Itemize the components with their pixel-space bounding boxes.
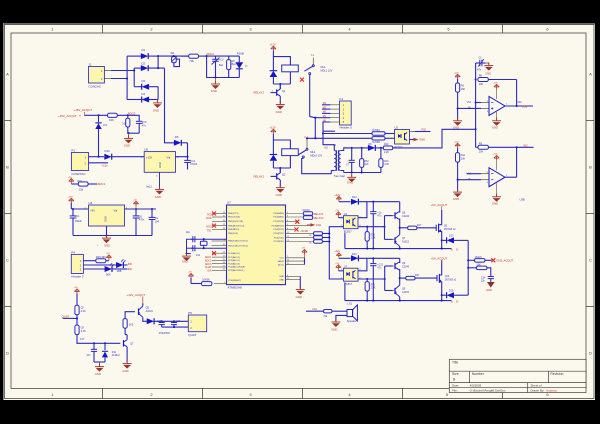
svg-text:U2: U2 — [395, 126, 399, 130]
resistor snubber output — [468, 263, 491, 276]
svg-text:+5V1B: +5V1B — [300, 230, 308, 233]
resistor R collector 1K5 — [123, 319, 134, 335]
ground bridge — [153, 100, 162, 113]
svg-text:GND: GND — [279, 279, 284, 281]
svg-text:Tran CapI: Tran CapI — [334, 174, 346, 178]
no-connect output — [491, 258, 495, 262]
svg-text:15k: 15k — [79, 187, 84, 191]
resistor 10K input — [108, 113, 118, 122]
connector P5 — [188, 311, 206, 337]
svg-text:PD7(RXD): PD7(RXD) — [274, 241, 285, 243]
labels left pins — [205, 214, 212, 273]
wire divider mid — [76, 315, 78, 325]
optocoupler U2 — [395, 126, 410, 149]
power +5V opto B — [335, 263, 343, 271]
wire feedback down — [516, 80, 518, 107]
svg-text:D6: D6 — [175, 135, 179, 139]
svg-text:GND: GND — [347, 181, 353, 185]
wire opamp B inputs — [458, 174, 481, 180]
svg-text:+C1: +C1 — [75, 215, 80, 218]
resistor PB1 out — [303, 212, 312, 216]
power +5V reset — [188, 272, 202, 284]
resistor PB2 out — [303, 216, 312, 220]
svg-text:47u: 47u — [377, 215, 382, 218]
ground crystal — [182, 252, 191, 263]
ground snubber — [211, 76, 220, 93]
svg-text:C17: C17 — [80, 338, 85, 341]
port D- B — [451, 300, 459, 304]
transistor QA1 C2240 — [395, 202, 410, 228]
diode D1 — [127, 48, 158, 59]
node bridge pin joins — [126, 77, 128, 79]
svg-text:GND: GND — [331, 328, 337, 332]
svg-text:+12V: +12V — [454, 141, 460, 143]
capacitor C10 — [191, 236, 195, 242]
wire +12 row — [307, 137, 377, 139]
wire U5 output node — [175, 143, 188, 157]
svg-text:C2240: C2240 — [402, 215, 410, 218]
capacitor C6 — [133, 209, 145, 236]
ground speaker — [331, 315, 347, 331]
svg-text:PD5(INT1): PD5(INT1) — [274, 233, 285, 235]
resistor R8 feedback — [478, 75, 517, 86]
svg-text:R27: R27 — [415, 274, 420, 277]
connector P1 — [71, 149, 88, 176]
svg-text:+C2: +C2 — [219, 58, 224, 61]
svg-text:AREF: AREF — [278, 260, 284, 263]
svg-text:10K: 10K — [477, 263, 482, 266]
relay ML2 contact — [299, 138, 323, 158]
wire opto U2 output stub — [410, 128, 431, 131]
title block — [449, 359, 586, 392]
resistor R9 feedback B — [476, 129, 517, 153]
svg-text:104: 104 — [155, 220, 160, 223]
svg-text:10K: 10K — [479, 83, 484, 86]
ground U5 — [146, 172, 164, 199]
svg-text:ADC1: ADC1 — [98, 182, 106, 186]
speaker LS1 — [347, 301, 358, 323]
svg-text:D13: D13 — [449, 235, 454, 238]
wire MCU vcc pins — [300, 258, 304, 289]
transistor QB1 C2240 — [395, 258, 410, 278]
connector P4 — [71, 251, 84, 279]
svg-text:Drawn By:: Drawn By: — [531, 388, 545, 392]
K1 pin wires — [315, 105, 334, 151]
svg-text:+12V: +12V — [454, 72, 460, 74]
wire feedback rail U3A — [475, 63, 477, 129]
svg-text:D3: D3 — [142, 79, 146, 83]
svg-text:PC2(ADC2): PC2(ADC2) — [228, 259, 240, 262]
svg-text:+5V: +5V — [335, 263, 339, 265]
wire secondary row — [344, 147, 369, 149]
svg-text:GND: GND — [155, 195, 161, 199]
svg-text:A: A — [6, 72, 9, 77]
svg-text:IN6: IN6 — [128, 262, 133, 266]
wire relay1 bottom — [273, 83, 290, 85]
wire bridge left rail — [126, 56, 128, 99]
svg-text:470uF/50V: 470uF/50V — [159, 333, 171, 335]
wire DC long drop — [165, 68, 175, 143]
svg-text:GND: GND — [122, 369, 128, 373]
wire opto drive routing — [323, 227, 344, 279]
power +12V channel A — [334, 193, 350, 202]
svg-text:File:: File: — [452, 388, 458, 392]
wire Q5 base link — [125, 312, 135, 319]
no-connect relay1 — [300, 78, 304, 82]
power +12V relay1 — [270, 42, 277, 56]
resistor R11a — [456, 83, 466, 120]
svg-text:11p: 11p — [186, 231, 191, 234]
ground output filled — [486, 282, 495, 292]
svg-text:P16B: P16B — [237, 51, 244, 55]
diode LV1 — [95, 115, 108, 156]
wire K1 pin5 row — [323, 130, 335, 132]
svg-text:470nF: 470nF — [190, 163, 198, 166]
svg-text:Number: Number — [472, 372, 485, 376]
resistor reset 10K — [202, 279, 212, 286]
svg-text:V10: V10 — [467, 172, 472, 175]
svg-text:D15: D15 — [449, 289, 454, 292]
port +15V_ACQUT — [58, 108, 92, 118]
wire relay2 bottom — [273, 167, 290, 169]
svg-text:U7: U7 — [227, 201, 231, 205]
svg-text:GND: GND — [124, 144, 130, 148]
diode relay2 — [270, 140, 278, 168]
svg-text:PB5(SCK): PB5(SCK) — [228, 233, 238, 235]
svg-text:GND: GND — [296, 295, 302, 299]
ground R11b — [453, 189, 462, 201]
svg-text:+12V: +12V — [493, 154, 499, 156]
wire rail A — [345, 233, 452, 249]
regulator U4 — [85, 201, 129, 226]
svg-text:PB7(XTAL2/TOSC2): PB7(XTAL2/TOSC2) — [228, 244, 248, 247]
svg-text:GND: GND — [276, 193, 282, 197]
svg-text:R17: R17 — [417, 224, 422, 227]
svg-text:10K: 10K — [364, 164, 369, 166]
svg-text:GND: GND — [276, 110, 282, 114]
svg-text:CON2AC: CON2AC — [89, 85, 102, 89]
trim cap C2 — [212, 56, 225, 77]
svg-text:GND: GND — [95, 372, 101, 376]
svg-text:GND: GND — [153, 108, 159, 112]
svg-text:R13: R13 — [384, 161, 389, 163]
svg-text:W1: W1 — [170, 51, 175, 55]
wire IN2 stub — [517, 146, 534, 148]
svg-text:CON2TAC: CON2TAC — [71, 172, 86, 176]
wire feedback B down — [516, 147, 518, 177]
wire bridge inner rail — [133, 68, 135, 87]
no-connect right pins — [295, 220, 299, 224]
ground Q2 — [276, 185, 285, 198]
svg-text:2N7000 x2: 2N7000 x2 — [444, 228, 456, 231]
svg-text:Ba1: Ba1 — [219, 64, 224, 67]
resistor R27 — [400, 274, 437, 280]
resistor R13 — [379, 148, 390, 173]
resistor pullup A — [365, 227, 376, 249]
wire +15 rail — [84, 114, 128, 116]
svg-text:Via: Via — [167, 155, 171, 159]
svg-text:+12V: +12V — [146, 155, 152, 159]
svg-text:+5V: +5V — [133, 199, 137, 201]
led D6B — [83, 259, 127, 273]
svg-text:INT0: INT0 — [206, 226, 212, 229]
ground ADC3 — [124, 132, 133, 147]
label +5V_ACQUT B — [431, 256, 448, 262]
svg-text:U7: U7 — [344, 265, 348, 269]
connector J1 — [89, 63, 105, 89]
svg-text:Speaker: Speaker — [347, 319, 357, 323]
svg-text:10K: 10K — [122, 122, 127, 125]
svg-text:PC817: PC817 — [344, 282, 352, 286]
resistor R1 70k — [182, 54, 207, 63]
svg-text:+12V: +12V — [334, 193, 340, 197]
svg-text:R706A: R706A — [373, 129, 381, 132]
svg-text:AVCC: AVCC — [278, 263, 284, 266]
svg-text:+12V: +12V — [270, 125, 276, 129]
svg-text:PC1(ADC1): PC1(ADC1) — [228, 256, 240, 259]
resistor R706A — [323, 129, 395, 135]
svg-text:+5V: +5V — [301, 248, 305, 250]
trimpot W1 — [170, 51, 179, 67]
diode D10 — [104, 149, 144, 160]
svg-text:GND: GND — [279, 276, 284, 278]
svg-text:TN1: TN1 — [207, 230, 212, 233]
svg-text:B: B — [589, 165, 592, 170]
svg-text:B: B — [6, 165, 9, 170]
svg-text:GND: GND — [485, 72, 491, 76]
svg-text:GN2_ACQUT: GN2_ACQUT — [496, 259, 513, 263]
svg-text:IOA: IOA — [207, 269, 212, 272]
svg-text:10K: 10K — [461, 157, 466, 160]
capacitor C4 — [184, 157, 198, 170]
svg-text:+12V: +12V — [68, 196, 74, 198]
svg-text:MDL6 12V: MDL6 12V — [310, 154, 322, 157]
svg-text:GND: GND — [419, 138, 425, 142]
svg-text:PD0(AIN0): PD0(AIN0) — [273, 212, 284, 215]
ground MCU — [296, 286, 305, 299]
capacitor C11 — [191, 245, 201, 257]
svg-text:Via: Via — [114, 208, 118, 212]
svg-text:R15 330: R15 330 — [96, 255, 106, 259]
resistor divider bottom 3.3K — [75, 325, 86, 335]
wire J1 pin1 to bridge — [104, 71, 111, 79]
svg-text:GND: GND — [104, 216, 108, 222]
svg-text:U3B: U3B — [520, 197, 525, 201]
svg-text:RELAY1: RELAY1 — [314, 212, 324, 216]
svg-text:Size: Size — [452, 372, 459, 376]
mosfet Q10 — [437, 260, 457, 295]
svg-text:PD2(INT0): PD2(INT0) — [274, 221, 285, 223]
wire U4 input — [71, 203, 88, 209]
svg-text:IN0: IN0 — [128, 267, 133, 271]
svg-text:ATMEGA8: ATMEGA8 — [228, 286, 242, 290]
MCU left pin stubs — [212, 214, 227, 284]
ground Q1 — [276, 101, 285, 114]
svg-text:GND: GND — [182, 260, 188, 264]
diode D14 — [351, 253, 400, 261]
svg-text:A1015: A1015 — [402, 240, 410, 243]
power +12V relay2 — [270, 125, 277, 140]
svg-text:A1015: A1015 — [402, 291, 410, 294]
svg-text:47n: 47n — [477, 69, 482, 72]
MCU U7 — [227, 201, 286, 290]
transformer T1 — [331, 148, 348, 174]
svg-text:GND: GND — [158, 162, 162, 168]
node bridge out — [157, 55, 159, 57]
resistor R10 — [383, 143, 392, 154]
svg-text:U3A: U3A — [517, 101, 522, 104]
ground C1 — [484, 62, 493, 75]
diode D3 — [134, 79, 158, 90]
power +5V opto A — [335, 210, 343, 218]
resistor R15 LED — [83, 255, 106, 262]
capacitor C15 — [156, 321, 165, 327]
svg-text:PD3(A/INT1): PD3(A/INT1) — [271, 224, 284, 227]
svg-text:70k: 70k — [189, 59, 194, 63]
svg-text:PB6(XTAL1/TOSC1): PB6(XTAL1/TOSC1) — [228, 240, 248, 243]
op-amp U3A — [487, 97, 508, 116]
relay ML1 contact — [304, 54, 332, 116]
svg-text:PB0(ICP1): PB0(ICP1) — [228, 213, 239, 215]
svg-text:Revision: Revision — [550, 372, 563, 376]
svg-text:D10: D10 — [105, 149, 111, 153]
ground transformer — [347, 173, 356, 185]
svg-text:PB2(SS/OC1B): PB2(SS/OC1B) — [228, 221, 243, 223]
svg-text:PD4(INT1): PD4(INT1) — [274, 229, 285, 231]
ground QUAT net — [95, 362, 104, 376]
svg-text:4148x2: 4148x2 — [112, 354, 121, 357]
svg-text:+12V_ACQUT: +12V_ACQUT — [127, 293, 146, 297]
svg-text:GND: GND — [211, 89, 217, 93]
diode relay1 — [270, 57, 278, 84]
svg-text:P1: P1 — [71, 149, 75, 153]
svg-text:PB3(MOSI/OC2): PB3(MOSI/OC2) — [228, 225, 245, 227]
MCU pin names left — [228, 213, 248, 282]
capacitor sec 100p — [346, 148, 355, 173]
power +12V R11b — [454, 141, 461, 152]
svg-text:PC0(ADC0): PC0(ADC0) — [228, 252, 240, 255]
svg-text:47u: 47u — [377, 267, 382, 270]
svg-text:U1: U1 — [344, 212, 348, 216]
no-connect marks left — [212, 212, 216, 216]
resistor opto drive 1 — [309, 232, 323, 237]
mosfet Q9 — [436, 210, 456, 240]
svg-text:Header 5: Header 5 — [340, 126, 353, 130]
led D6A — [83, 263, 127, 276]
svg-text:QUAT: QUAT — [188, 333, 196, 337]
wire opamp A inputs — [458, 103, 481, 109]
svg-text:470n: 470n — [139, 219, 145, 222]
svg-text:LS1: LS1 — [347, 301, 352, 305]
svg-text:RXD: RXD — [206, 217, 211, 220]
svg-text:+5V: +5V — [188, 272, 192, 274]
power arrow ADC net — [68, 177, 82, 184]
svg-text:+5V: +5V — [335, 210, 339, 212]
svg-text:«: « — [451, 300, 453, 304]
optocoupler U5A — [341, 212, 362, 234]
wire output join vertical — [467, 240, 469, 295]
wire snubber top rail — [207, 55, 240, 57]
port D- A — [451, 248, 459, 252]
svg-text:+12V: +12V — [493, 83, 499, 85]
svg-text:Va12: Va12 — [146, 184, 152, 188]
wire P1 pin2 — [89, 162, 109, 164]
svg-text:C: C — [6, 258, 9, 263]
capacitor C3 — [128, 115, 147, 133]
svg-text:+5V: +5V — [68, 177, 72, 179]
svg-text:+5V: +5V — [90, 208, 95, 212]
wire rectifier top rail — [158, 55, 189, 57]
MCU right pin stubs — [286, 214, 314, 280]
label +5V_ACQUT A — [431, 203, 448, 210]
wire base bus A — [385, 216, 393, 240]
ground R11a — [453, 118, 462, 130]
crystal circuit — [186, 231, 227, 249]
capacitor C13 — [370, 202, 382, 249]
ground Q7 — [122, 360, 131, 373]
transistor QB2 A1015 — [395, 278, 410, 301]
MCU pin numbers — [223, 212, 289, 284]
svg-text:2.2K: 2.2K — [371, 237, 376, 240]
transistor QA2 A1015 — [395, 228, 410, 249]
svg-text:22n: 22n — [481, 280, 486, 283]
resistor R17 — [400, 224, 437, 230]
svg-text:U4: U4 — [89, 201, 93, 205]
power +5V divider — [74, 287, 80, 305]
gnd arrow U2 — [410, 138, 426, 142]
capacitor C9 — [149, 209, 160, 236]
svg-text:2.2K: 2.2K — [81, 310, 86, 313]
op-amp U3B — [487, 168, 508, 187]
svg-text:P5: P5 — [188, 311, 192, 315]
svg-text:PC5(ADC5/SCL): PC5(ADC5/SCL) — [228, 269, 245, 272]
svg-text:PC3(ADC3): PC3(ADC3) — [228, 262, 240, 265]
svg-text:+12V: +12V — [270, 42, 276, 46]
wire caps bottom rail — [162, 326, 189, 328]
svg-text:+C15: +C15 — [156, 321, 162, 323]
svg-text:GND: GND — [453, 197, 459, 201]
svg-text:Title: Title — [452, 361, 458, 365]
svg-text:Ba1: Ba1 — [232, 63, 237, 66]
svg-text:G:\Eectrml\Amga8.SchDoc: G:\Eectrml\Amga8.SchDoc — [470, 388, 506, 392]
MCU pin names right — [271, 212, 284, 281]
transistor Q2 — [271, 168, 286, 187]
svg-text:Date:: Date: — [452, 383, 459, 387]
resistor pullup B — [365, 279, 376, 301]
diode D15 — [442, 289, 469, 298]
svg-text:+5V: +5V — [106, 253, 110, 255]
svg-text:C2240: C2240 — [402, 266, 410, 269]
wire base bus B — [385, 266, 393, 291]
svg-text:1K5: 1K5 — [129, 323, 134, 326]
resistor R2 — [227, 56, 237, 77]
svg-text:R10: R10 — [384, 143, 389, 146]
svg-text:47u: 47u — [142, 124, 147, 127]
wire bridge right tie bottom — [157, 87, 159, 100]
svg-text:3.3K: 3.3K — [384, 164, 389, 166]
label +12V_ACQUT — [127, 293, 146, 303]
svg-text:D12: D12 — [352, 196, 357, 199]
svg-text:hoctrua: hoctrua — [547, 388, 557, 392]
power +5V mcu — [301, 248, 307, 258]
capacitor C12 — [370, 258, 384, 300]
ground opamp B — [492, 183, 501, 205]
svg-text:450uF: 450uF — [75, 220, 82, 223]
power +12V opamp A — [493, 83, 500, 100]
wire rail B — [345, 283, 452, 301]
svg-text:2.2K: 2.2K — [371, 287, 376, 290]
svg-text:10K: 10K — [461, 88, 466, 91]
